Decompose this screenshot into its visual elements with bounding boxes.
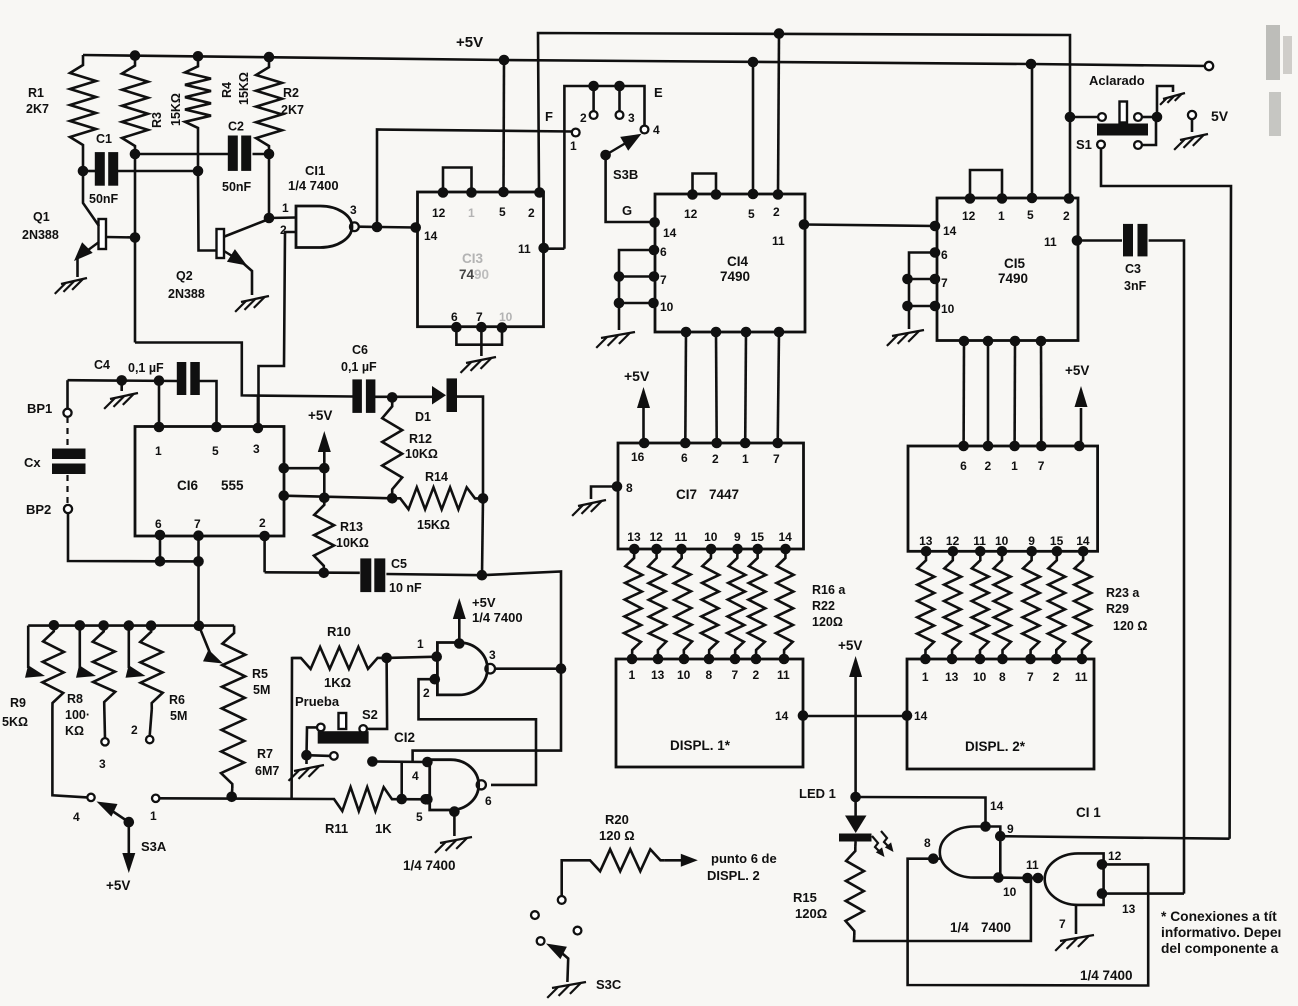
junction pin5 wire: [420, 794, 431, 805]
svg-text:S3A: S3A: [141, 839, 167, 854]
svg-text:5KΩ: 5KΩ: [2, 715, 28, 729]
svg-text:1: 1: [468, 206, 475, 220]
svg-text:BP1: BP1: [27, 401, 52, 416]
wire CI1 pin1 input: [269, 216, 296, 219]
svg-text:R12: R12: [409, 432, 432, 446]
svg-text:14: 14: [424, 229, 438, 243]
pin 14 CI1 gateA: [980, 821, 991, 832]
wire CI5 to 7447 bus b: [987, 341, 990, 446]
svg-text:6: 6: [155, 517, 162, 531]
ground CI1 gateB pin7: [1060, 935, 1094, 941]
pin 10 7447-2 bottom: [997, 546, 1008, 557]
wire CI5 strap pin7 stub: [908, 278, 936, 281]
wire C1 right to R4 bottom node: [117, 170, 198, 173]
wire R10 left vertical: [292, 658, 301, 799]
wire CI6 right pin a to +5V stem: [284, 467, 325, 470]
pin 12 7447-2 bottom: [948, 546, 959, 557]
svg-text:3: 3: [489, 648, 496, 662]
resistor R22: [776, 549, 794, 659]
wire S1 lower-right link: [1142, 121, 1156, 145]
junction CI6 pin7 stub: [193, 556, 204, 567]
pin CI4 bottom c: [741, 327, 752, 338]
wire S3B wiper arm: [606, 141, 630, 156]
svg-text:15KΩ: 15KΩ: [417, 518, 450, 532]
pin 12 CI3: [438, 187, 449, 198]
wire R7 bottom: [230, 788, 233, 797]
wire +5V stem through to LED1: [854, 676, 857, 816]
pin CI5 bottom c: [1010, 336, 1021, 347]
junction R8 zig top: [98, 620, 109, 631]
svg-text:13: 13: [919, 534, 933, 548]
svg-text:2: 2: [753, 668, 760, 682]
svg-text:14: 14: [914, 709, 928, 723]
resistor R17: [648, 549, 666, 659]
wire D1 vertical to C5 wire: [482, 498, 483, 575]
ground 5V terminal: [1180, 134, 1208, 140]
resistor R18: [673, 549, 692, 659]
wire CI5 pin5 riser: [1031, 64, 1034, 198]
svg-text:R3: R3: [150, 112, 164, 128]
pin 2 CI6: [259, 531, 270, 542]
wire S3A contact1 to R11: [159, 797, 329, 800]
junction CI2 +5V on gate: [454, 638, 465, 649]
svg-text:5: 5: [416, 810, 423, 824]
svg-text:11: 11: [675, 530, 688, 544]
wire CI5 pins12-1 top strap: [970, 170, 1002, 198]
svg-text:4: 4: [73, 810, 80, 824]
wire pin4 horizontal: [372, 760, 427, 763]
svg-text:CI6: CI6: [177, 478, 199, 493]
junction S3B contact3 stub: [614, 81, 625, 92]
pin 3 CI6: [253, 423, 264, 434]
resistor R10: [292, 647, 387, 669]
wire node Q1 collector to C1: [83, 170, 95, 173]
junction R4 bottom / C1 / Q2 base riser: [193, 166, 204, 177]
wire BP2 to CI6 pins 6/7: [68, 513, 199, 561]
pin 2 CI5: [1064, 193, 1075, 204]
pin 2 CI7: [711, 438, 722, 449]
svg-text:2N388: 2N388: [168, 287, 205, 301]
op-amp/IC CI4 7490 box: [655, 194, 805, 332]
wire +5V stem CI2: [458, 619, 461, 643]
wire dashed BP1-Cx: [66, 417, 68, 448]
junction R13 top: [319, 493, 330, 504]
svg-text:+5V: +5V: [456, 34, 483, 51]
capacitor C5: [360, 558, 371, 592]
svg-text:14: 14: [990, 799, 1004, 813]
junction S1 right node: [1152, 112, 1163, 123]
svg-text:CI5: CI5: [1004, 256, 1026, 271]
op-amp/gate CI2 gate B: [430, 760, 479, 810]
wire CI1 pin8 feedback to pin12: [908, 859, 1149, 986]
junction R6 zig top: [146, 620, 157, 631]
svg-text:2: 2: [423, 686, 430, 700]
pin 5 CI3: [498, 187, 509, 198]
pin 10 CI1 gateA: [993, 872, 1004, 883]
svg-text:R14: R14: [425, 470, 448, 484]
svg-text:11: 11: [973, 534, 986, 548]
junction R14 right / D1 vertical: [478, 493, 489, 504]
pin 1 CI3: [466, 187, 477, 198]
svg-text:9: 9: [734, 530, 741, 544]
svg-text:11: 11: [1044, 235, 1057, 249]
node S2 lower contact: [330, 752, 338, 760]
resistor R4: [185, 56, 211, 171]
resistor R28: [1048, 551, 1065, 659]
node S3C contact b: [531, 911, 539, 919]
svg-text:3: 3: [628, 111, 635, 125]
wire CI3 strap center stub: [480, 327, 483, 356]
wire S2 left contact down: [307, 727, 318, 755]
wire R11 to CI2 pin5: [397, 798, 427, 801]
junction CI4 strap pin7: [614, 271, 625, 282]
arrow Q1 emitter: [74, 242, 93, 261]
wire pin4-to-R11 riser: [400, 762, 403, 800]
wire CI1 pin2 input loop to 555 pin3 node: [259, 232, 297, 428]
junction Q1 base: [130, 232, 141, 243]
svg-text:R16 a: R16 a: [812, 583, 846, 597]
svg-text:CI2: CI2: [394, 730, 415, 745]
pin 7 DISPL.2: [1025, 654, 1036, 665]
svg-text:Q1: Q1: [33, 210, 50, 224]
transistor Q1 base bar: [99, 219, 107, 249]
wire CI6 pin2 stub down: [263, 536, 266, 572]
wire BP1 node to C4: [68, 379, 178, 382]
svg-text:12: 12: [684, 207, 698, 221]
wire LED1 to R15: [854, 842, 857, 848]
op-amp/IC CI3 7490 box: [418, 192, 544, 327]
pin 2 CI2: [430, 674, 441, 685]
svg-text:R23 a: R23 a: [1106, 586, 1140, 600]
junction CI5 strap pin10: [902, 301, 913, 312]
svg-text:7: 7: [1027, 670, 1034, 684]
svg-text:5M: 5M: [253, 683, 270, 697]
arrow S3A wiper: [97, 802, 118, 817]
arrow +5V 7447-2: [1075, 386, 1088, 407]
junction CI4 pin2 riser on line2: [774, 28, 785, 39]
wire S2 right contact to R10 node: [367, 658, 387, 729]
wire Q1-base node to pin3 node: [135, 343, 353, 397]
node S1 upper-left contact: [1098, 113, 1106, 121]
svg-text:7: 7: [941, 276, 948, 290]
wire R20 left lead: [562, 860, 586, 896]
pin 6 CI5: [930, 247, 941, 258]
svg-text:0,1 µF: 0,1 µF: [341, 360, 377, 374]
junction R12 top: [387, 392, 398, 403]
arrow +5V CI7: [637, 387, 650, 408]
svg-text:D1: D1: [415, 410, 431, 424]
svg-text:6: 6: [960, 459, 967, 473]
svg-text:15KΩ: 15KΩ: [237, 72, 251, 105]
pin 12 CI1 gateB: [1097, 859, 1108, 870]
svg-text:S3B: S3B: [613, 167, 638, 182]
svg-text:KΩ: KΩ: [65, 724, 84, 738]
junction CI6 pin6 stub: [155, 556, 166, 567]
resistor R20: [727, 549, 745, 659]
wire CI5 strap pin10 stub: [908, 305, 936, 308]
pin 11 CI1 gateB output: [1033, 873, 1044, 884]
junction R9 top: [49, 620, 60, 631]
resistor R23: [917, 551, 934, 659]
wire CI3 pin5 riser to +5V: [502, 60, 505, 192]
svg-text:15: 15: [751, 530, 765, 544]
svg-text:2: 2: [1063, 209, 1070, 223]
svg-text:7: 7: [476, 310, 483, 324]
svg-text:6: 6: [941, 248, 948, 262]
wire CI4 strap pin10 stub: [619, 302, 654, 305]
resistor R15: [846, 847, 865, 935]
svg-text:6M7: 6M7: [255, 764, 279, 778]
svg-text:13: 13: [627, 530, 641, 544]
pin 11 CI7 bottom: [676, 544, 687, 555]
ground CI3 bottom: [466, 357, 496, 363]
svg-text:10: 10: [941, 302, 955, 316]
wire +5V top rail: [83, 55, 1209, 66]
capacitor Cx plate top: [52, 449, 86, 460]
switch S1 bar: [1097, 124, 1148, 136]
svg-text:6: 6: [485, 794, 492, 808]
pin 14 DISPL.1: [798, 710, 809, 721]
svg-text:E: E: [654, 85, 663, 100]
capacitor C4: [177, 362, 187, 395]
svg-text:Q2: Q2: [176, 269, 193, 283]
wire CI1 output pin3: [359, 225, 415, 228]
svg-text:1: 1: [629, 668, 636, 682]
pin 5 CI6: [211, 422, 222, 433]
arrow R6 wiper: [126, 665, 146, 678]
pin 9 CI7 bottom: [732, 544, 743, 555]
pin 4 CI6 right a: [279, 463, 290, 474]
wire Q1 emitter lead: [80, 242, 99, 256]
junction CI5 pin5 riser: [1026, 59, 1037, 70]
ground Q2 emitter: [241, 296, 269, 302]
node S3A contact 4: [87, 794, 94, 801]
svg-text:6: 6: [681, 451, 688, 465]
junction R3 top: [130, 50, 141, 61]
svg-text:14: 14: [1076, 534, 1090, 548]
wire C5 to V2 corner: [386, 572, 561, 669]
resistor R1: [70, 55, 96, 171]
svg-text:R10: R10: [327, 624, 351, 639]
wire R8 bottom lead: [103, 708, 106, 738]
wire CI4 strap pin7 stub: [619, 275, 654, 278]
svg-text:12: 12: [1108, 849, 1122, 863]
wire S3A wiper arm: [110, 810, 129, 823]
svg-text:2: 2: [259, 516, 266, 530]
svg-text:7490: 7490: [998, 271, 1028, 286]
junction R13 bottom: [319, 568, 330, 579]
svg-text:1: 1: [150, 809, 157, 823]
svg-text:555: 555: [221, 478, 244, 493]
svg-text:5V: 5V: [1211, 108, 1229, 124]
junction Q2 collector node: [264, 213, 275, 224]
pin 11 DISPL.1: [779, 654, 790, 665]
svg-text:2: 2: [712, 452, 719, 466]
pin 13 CI1 gateB: [1097, 888, 1108, 899]
capacitor C3: [1123, 224, 1133, 257]
pin 7 CI3: [476, 322, 487, 333]
svg-text:1: 1: [282, 201, 289, 215]
pin 15 CI7 bottom: [752, 544, 763, 555]
svg-text:CI 1: CI 1: [1076, 805, 1101, 820]
svg-text:6: 6: [660, 245, 667, 259]
wire CI4 pin11 to CI5 pin14: [804, 225, 935, 227]
node 5V terminal: [1188, 111, 1196, 119]
svg-text:2N388: 2N388: [22, 228, 59, 242]
op-amp/gate CI1 NAND: [296, 206, 352, 248]
svg-text:7490: 7490: [720, 269, 750, 284]
svg-text:10: 10: [995, 534, 1009, 548]
junction CI4 pin5 riser: [748, 57, 759, 68]
svg-text:2K7: 2K7: [281, 103, 304, 117]
svg-text:13: 13: [651, 668, 665, 682]
node S3B contact 2: [590, 111, 598, 119]
ground S1 upper: [1163, 93, 1185, 99]
switch S1 plunger: [1120, 102, 1128, 123]
pin 8 DISPL.2: [997, 654, 1008, 665]
svg-text:10 nF: 10 nF: [389, 581, 422, 595]
wire R6 wiper: [128, 626, 131, 668]
svg-text:1/4 7400: 1/4 7400: [1080, 968, 1133, 983]
pin 10 CI4: [648, 298, 659, 309]
arrow +5V CI2: [453, 598, 466, 619]
svg-text:C4: C4: [94, 358, 110, 372]
junction CI5 strap pin7: [902, 274, 913, 285]
pin 2 CI4: [773, 189, 784, 200]
svg-text:7: 7: [732, 668, 739, 682]
arrow +5V LED column: [849, 656, 862, 677]
node BP1: [63, 409, 71, 417]
resistor R19: [701, 549, 719, 659]
pin 10 DISPL.2: [975, 654, 986, 665]
junction R7 bottom on wire: [226, 792, 237, 803]
svg-text:8: 8: [924, 836, 931, 850]
svg-text:0,1 µF: 0,1 µF: [128, 361, 164, 375]
junction R2 top: [264, 52, 275, 63]
wire D1 to corner: [457, 397, 483, 499]
svg-text:R4: R4: [220, 82, 234, 98]
wire CI6 pin6 stub: [159, 535, 162, 561]
pin 12 CI4: [687, 189, 698, 200]
junction pins10-11 riser: [1022, 873, 1033, 884]
svg-text:1/4 7400: 1/4 7400: [403, 858, 456, 873]
op-amp/gate CI1 latch gate B (mirrored): [1045, 853, 1104, 905]
arrow R5 wiper: [203, 650, 223, 664]
wire CI4 to CI7 bus c: [744, 332, 747, 443]
pin 14 CI3: [410, 222, 421, 233]
svg-text:2: 2: [773, 205, 780, 219]
svg-text:10: 10: [704, 530, 718, 544]
wire 7447-2 +5V stem: [1080, 408, 1083, 446]
pin 2 7447-2 top: [983, 441, 994, 452]
pin 16 7447-2 (+5V): [1074, 441, 1085, 452]
svg-text:10KΩ: 10KΩ: [336, 536, 369, 550]
op-amp/IC CI5 7490 box: [937, 198, 1078, 341]
svg-text:120Ω: 120Ω: [812, 615, 843, 629]
pin 8 CI7: [612, 481, 623, 492]
svg-text:12: 12: [432, 206, 446, 220]
wire F riser to S3B contact 1: [377, 130, 572, 228]
pin 10 CI3 (faded): [497, 322, 508, 333]
pin 6 CI4: [649, 245, 660, 256]
ground S2: [294, 765, 324, 771]
svg-text:5: 5: [748, 207, 755, 221]
wire dashed Cx-BP2: [66, 475, 68, 504]
junction R10 right / S2 / CI2 pin1: [381, 653, 392, 664]
svg-text:+5V: +5V: [624, 368, 650, 384]
pin 1 CI4: [711, 189, 722, 200]
junction S3B contact2 stub: [588, 81, 599, 92]
svg-text:11: 11: [772, 234, 785, 248]
svg-text:C5: C5: [391, 557, 407, 571]
svg-text:15: 15: [1050, 534, 1064, 548]
svg-text:+5V: +5V: [106, 878, 130, 893]
svg-text:CI4: CI4: [727, 254, 749, 269]
op-amp/IC CI6 555 box: [135, 427, 284, 537]
svg-text:3: 3: [253, 442, 260, 456]
pin 6 CI6: [155, 530, 166, 541]
wire Q1 emitter to ground: [76, 258, 79, 277]
resistor R9 (trimmer): [42, 625, 64, 709]
svg-text:2K7: 2K7: [26, 102, 49, 116]
pin 9 7447-2 bottom: [1026, 546, 1037, 557]
junction R12 bottom / R14 left: [387, 493, 398, 504]
LED LED1 triangle: [845, 816, 867, 834]
arrow Q2 emitter: [227, 249, 247, 265]
wire CI4 pins12-1 top strap: [693, 174, 717, 195]
resistor R6 (trimmer): [140, 626, 163, 709]
wire CI4 pin5 riser: [752, 62, 755, 194]
wire BP1 stub: [66, 380, 69, 409]
resistor R2: [256, 57, 282, 154]
pin 1 7447-2 top: [1009, 441, 1020, 452]
svg-text:12: 12: [962, 209, 976, 223]
wire CI1 gateB pin7 stub: [1075, 905, 1078, 934]
wire S3B bracket E: [564, 86, 644, 249]
svg-text:11: 11: [518, 242, 531, 256]
wire R10 to CI2 pin1: [387, 657, 438, 658]
wire bank top rail: [28, 624, 234, 627]
wire CI5 ground strap: [909, 253, 935, 330]
wire CI5 to 7447 bus d: [1040, 341, 1043, 446]
arrow S3B wiper: [620, 134, 641, 151]
svg-text:15KΩ: 15KΩ: [169, 93, 183, 126]
svg-text:14: 14: [779, 530, 793, 544]
node S3C contact d: [537, 937, 545, 945]
svg-text:14: 14: [663, 226, 677, 240]
svg-text:* Conexiones a tít: * Conexiones a tít: [1161, 909, 1277, 924]
svg-text:2: 2: [1053, 670, 1060, 684]
svg-text:2: 2: [580, 111, 587, 125]
svg-text:Prueba: Prueba: [295, 694, 340, 709]
pin 10 DISPL.1: [679, 654, 690, 665]
wire CI6 pin3 stub: [257, 395, 260, 428]
svg-text:11: 11: [777, 668, 790, 682]
svg-text:1: 1: [417, 637, 424, 651]
svg-text:LED 1: LED 1: [799, 786, 836, 801]
op-amp/IC DISPL.1 box: [616, 659, 803, 767]
resistor R3: [122, 56, 148, 154]
wire Q1 collector lead: [83, 171, 99, 226]
svg-text:R20: R20: [605, 812, 629, 827]
wire C4 to CI6 pin5: [199, 381, 217, 427]
pin 7 CI6: [193, 530, 204, 541]
wire S1 right contact to node: [1142, 116, 1157, 119]
svg-text:3: 3: [99, 757, 106, 771]
wire CI6 pin7 stub down to bank: [197, 536, 200, 627]
wire S2 lower contact link: [307, 754, 331, 757]
wire pin2 to C5: [265, 571, 360, 574]
